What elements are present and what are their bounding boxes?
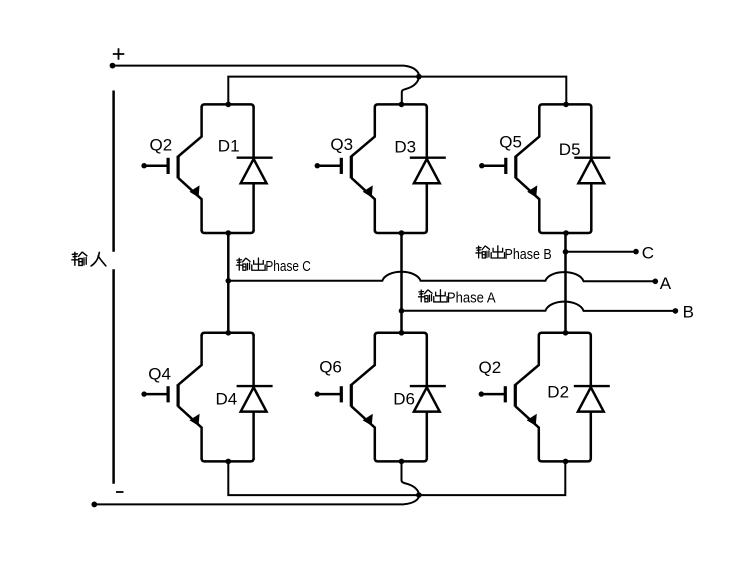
svg-text:D1: D1 (218, 137, 240, 156)
svg-text:Q2: Q2 (479, 358, 502, 377)
node phase B tap dot (563, 249, 569, 255)
wire phase leg column2 (400, 234, 403, 333)
svg-text:B: B (683, 302, 694, 321)
svg-text:Phase C: Phase C (265, 258, 311, 275)
svg-text:Q5: Q5 (499, 133, 522, 152)
node phase C tap dot (226, 278, 232, 284)
wire plus sub-rail (228, 77, 566, 105)
node plus terminal dot (110, 63, 116, 69)
node phase A tap dot (399, 308, 405, 314)
label shuru (input) (72, 252, 106, 266)
wire left input bus upper (112, 91, 115, 252)
wire plus rail hop arc to Q3 top (402, 66, 419, 105)
wire phase leg column3 (564, 234, 567, 334)
wire phase C line to A terminal (228, 272, 655, 281)
label minus (116, 491, 124, 493)
node minus hop junction dot (416, 492, 422, 498)
wire phase leg column1 (227, 233, 230, 333)
wire minus sub-rail (228, 463, 565, 495)
label output Phase C (236, 258, 310, 275)
node terminal B dot (673, 308, 679, 314)
node terminal A dot (653, 279, 659, 285)
svg-text:A: A (660, 274, 672, 293)
svg-text:Q3: Q3 (330, 135, 353, 154)
transistor Q2b with diode D2 cell (479, 330, 610, 464)
transistor Q2 with diode D1 cell (141, 102, 272, 236)
svg-text:D5: D5 (559, 140, 581, 159)
svg-text:Phase A: Phase A (447, 290, 496, 307)
svg-text:D2: D2 (547, 383, 569, 402)
transistor Q5 with diode D5 cell (479, 102, 610, 236)
label output Phase B (476, 246, 552, 263)
transistor Q3 with diode D3 cell (315, 102, 446, 236)
wire plus rail (113, 65, 405, 67)
wire minus rail hop arc from Q6 bottom (402, 464, 420, 504)
label plus (113, 48, 125, 60)
svg-text:C: C (642, 244, 654, 263)
transistor Q4 with diode D4 cell (141, 330, 272, 464)
wire phase A line to B terminal (402, 302, 676, 311)
transistor Q6 with diode D6 cell (315, 330, 446, 464)
svg-text:D4: D4 (216, 390, 238, 409)
svg-text:D3: D3 (394, 138, 416, 157)
node minus terminal dot (91, 502, 97, 508)
wire left input bus lower (112, 269, 115, 483)
svg-text:Q4: Q4 (148, 365, 171, 384)
wire phase B line to C terminal (566, 251, 637, 253)
node terminal C dot (633, 249, 639, 255)
wire minus rail (94, 503, 404, 505)
svg-text:Q2: Q2 (150, 136, 173, 155)
svg-text:Phase B: Phase B (505, 246, 552, 263)
label output Phase A (418, 290, 495, 307)
svg-text:Q6: Q6 (319, 357, 342, 376)
node plus hop junction dot (416, 74, 422, 80)
svg-text:D6: D6 (393, 390, 415, 409)
